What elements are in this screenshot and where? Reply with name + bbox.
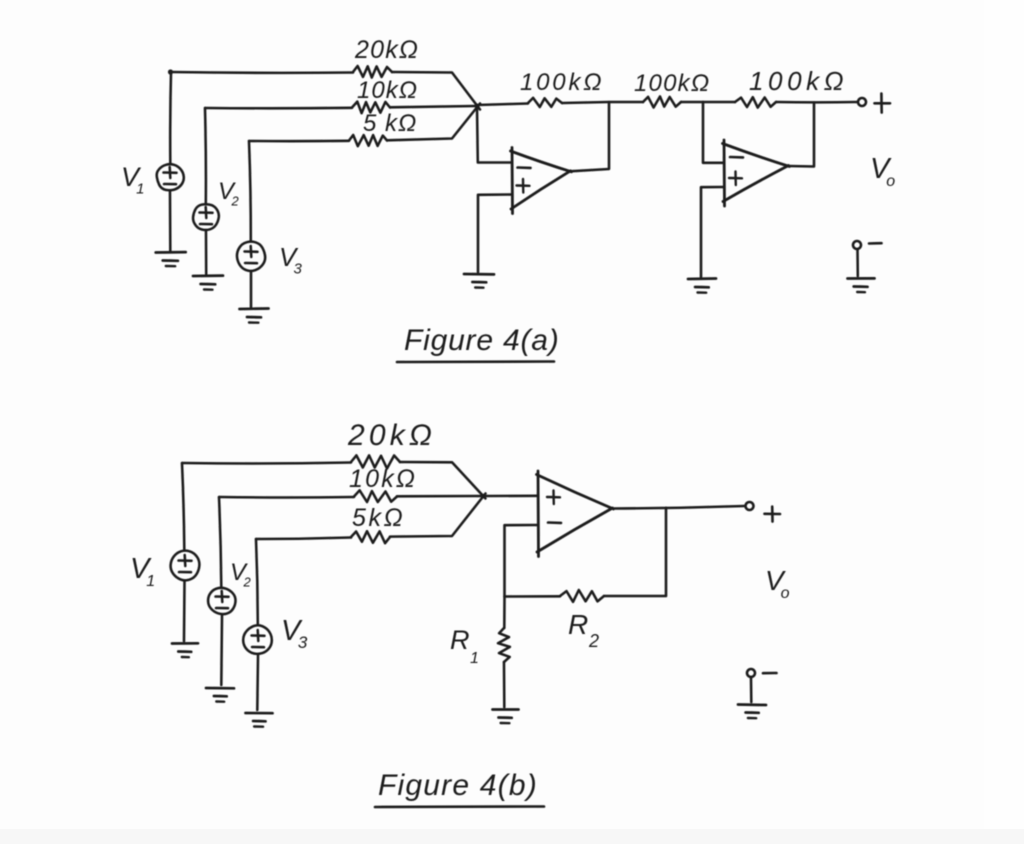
svg-text:R: R <box>568 609 589 640</box>
wire 10k input run <box>205 107 352 110</box>
node B drop to U2 inverting <box>703 102 724 163</box>
caption Figure 4(b) <box>375 769 544 807</box>
wire V2 vertical (Fig 4b) <box>219 497 221 587</box>
wire V3 vertical (Fig 4b) <box>256 539 258 624</box>
terminal + output (Fig 4b) <box>746 502 754 510</box>
label 20kOhm (Fig 4a) <box>354 36 419 64</box>
ground V3 (Fig 4b) <box>246 713 273 727</box>
label V1 (Fig 4a) <box>121 162 145 198</box>
label - at reference terminal <box>869 242 882 245</box>
svg-text:100kΩ: 100kΩ <box>749 66 848 96</box>
wire 5k to summing slant <box>387 104 480 141</box>
label Vo (Fig 4a) <box>870 153 896 190</box>
wire V3 to ground (Fig 4b) <box>256 655 259 710</box>
label V1 (Fig 4b) <box>130 553 156 590</box>
svg-text:10kΩ: 10kΩ <box>349 465 417 493</box>
ground U2 + input <box>688 279 716 293</box>
wire 20k to summing slant (Fig 4b) <box>400 462 486 499</box>
source V2 (Fig 4b) <box>208 588 235 614</box>
wire V3 to ground <box>250 271 253 307</box>
svg-text:1: 1 <box>136 181 145 198</box>
svg-text:Figure 4(a): Figure 4(a) <box>404 324 560 357</box>
resistor R1 (Fig 4b) <box>498 628 510 662</box>
source V3 (Fig 4a) <box>237 242 265 271</box>
ground reference terminal (Fig 4b) <box>738 705 766 719</box>
label 5kOhm (Fig 4a) <box>363 110 417 137</box>
resistor 100k feedback U1 <box>528 98 562 107</box>
svg-text:2: 2 <box>230 194 239 209</box>
svg-text:10kΩ: 10kΩ <box>357 77 418 104</box>
label 20kOhm (Fig 4b) <box>347 419 436 452</box>
wire R2 to output junction <box>604 508 666 596</box>
wire node B to Rf2 <box>703 101 735 104</box>
terminal - reference (Fig 4a) <box>853 241 861 249</box>
op-amp U3 (Fig 4b) <box>537 471 614 557</box>
wire Rf1 to output node <box>562 102 609 103</box>
source V1 (Fig 4b) <box>171 551 200 581</box>
wire reference to ground (Fig 4b) <box>750 677 753 702</box>
label 10kOhm (Fig 4b) <box>349 465 417 493</box>
resistor 10k (Fig 4b) <box>354 490 397 502</box>
resistor 5k (Fig 4b) <box>351 531 390 543</box>
wire V2 vertical <box>204 108 207 203</box>
svg-text:R: R <box>450 625 470 655</box>
label 100kOhm Rf2 <box>749 66 848 96</box>
svg-text:20kΩ: 20kΩ <box>347 419 436 452</box>
svg-text:3: 3 <box>298 633 308 652</box>
wire 10k input run (Fig 4b) <box>219 496 354 499</box>
op-amp U1 (Fig 4a) <box>511 148 572 214</box>
ground U1 + input <box>464 274 494 288</box>
label V3 (Fig 4a) <box>279 242 303 277</box>
label 5kOhm (Fig 4b) <box>352 504 405 532</box>
wire 5k input run <box>249 140 349 143</box>
wire noninverting input U2 <box>701 187 724 277</box>
ground V1 (Fig 4a) <box>156 252 186 266</box>
svg-text:5kΩ: 5kΩ <box>352 504 405 532</box>
label 100kOhm series <box>634 70 710 97</box>
resistor 20k (Fig 4b) <box>351 455 400 468</box>
wire feedback node to R2 <box>505 595 561 598</box>
wire inverting input U3 <box>505 525 539 596</box>
resistor R2 (Fig 4b) <box>560 590 604 602</box>
ground R1 (Fig 4b) <box>493 710 519 724</box>
ground V3 (Fig 4a) <box>240 309 269 323</box>
wire R1 to ground <box>503 662 506 707</box>
wire summing to Rf1 <box>477 104 528 106</box>
source V2 (Fig 4a) <box>193 204 219 230</box>
terminal - reference (Fig 4b) <box>747 669 755 677</box>
resistor 100k series (Fig 4a) <box>643 97 681 108</box>
label V2 (Fig 4b) <box>230 559 251 590</box>
ground V2 (Fig 4a) <box>193 276 223 290</box>
svg-text:Figure 4(b): Figure 4(b) <box>378 769 538 802</box>
label 10kOhm (Fig 4a) <box>357 77 418 104</box>
wire feedback node to R1 <box>503 597 506 629</box>
wire 20k input top run <box>170 71 353 74</box>
wire inverting input drop U1 <box>477 106 512 163</box>
wire V3 vertical <box>249 141 251 241</box>
label R2 (Fig 4b) <box>568 609 600 651</box>
svg-text:2: 2 <box>242 575 251 590</box>
wire V1 vertical (Fig 4b) <box>182 463 184 549</box>
source V1 (Fig 4a) <box>157 164 184 190</box>
summing node (Fig 4a) <box>475 104 480 109</box>
svg-text:100kΩ: 100kΩ <box>634 70 710 97</box>
wire reference to ground <box>856 249 859 276</box>
label 100kOhm Rf1 <box>520 69 604 96</box>
wire V1 to ground <box>169 191 172 251</box>
label Vo (Fig 4b) <box>765 565 790 602</box>
source V3 (Fig 4b) <box>243 625 272 654</box>
label R1 (Fig 4b) <box>450 625 479 667</box>
resistor 20k (Fig 4a) <box>353 66 392 78</box>
wire V2 to ground (Fig 4b) <box>220 615 223 685</box>
wire 5k input run (Fig 4b) <box>256 538 351 540</box>
svg-text:1: 1 <box>470 650 479 667</box>
svg-text:1: 1 <box>146 573 155 590</box>
ground V2 (Fig 4b) <box>206 688 234 702</box>
svg-text:20kΩ: 20kΩ <box>354 36 419 64</box>
node A (V1 tap, Fig 4a) <box>168 69 173 74</box>
wire Rf2 to output terminal <box>776 101 857 104</box>
summing node (Fig 4b) <box>481 494 486 499</box>
svg-text:o: o <box>886 173 895 190</box>
wire U1 output up <box>570 103 609 172</box>
resistor 10k (Fig 4a) <box>352 102 390 114</box>
wire V1 vertical <box>169 72 172 163</box>
wire series R to node B <box>681 101 703 104</box>
svg-text:100kΩ: 100kΩ <box>520 69 604 96</box>
label + at output terminal <box>875 94 891 113</box>
wire 5k to summing slant (Fig 4b) <box>390 494 486 537</box>
svg-text:3: 3 <box>294 260 303 277</box>
wire 20k input top run (Fig 4b) <box>182 461 351 465</box>
svg-text:o: o <box>781 585 790 602</box>
wire node to + input U3 <box>483 495 538 498</box>
resistor 5k (Fig 4a) <box>349 135 387 146</box>
wire 20k to summing slant <box>392 72 480 110</box>
resistor 100k feedback U2 <box>735 97 776 107</box>
terminal + output (Fig 4a) <box>858 98 866 106</box>
wire U2 output up <box>788 103 814 167</box>
wire 10k to summing node (Fig 4b) <box>397 495 482 498</box>
label + at output terminal (Fig 4b) <box>765 507 781 522</box>
svg-text:2: 2 <box>588 631 600 651</box>
op-amp U2 (Fig 4a) <box>723 140 790 206</box>
label - at reference terminal (Fig 4b) <box>763 672 777 675</box>
wire U3 output <box>612 506 745 509</box>
wire V1 to ground (Fig 4b) <box>183 581 186 641</box>
wire V2 to ground <box>205 231 208 275</box>
wire 10k to summing node <box>390 106 476 107</box>
label V3 (Fig 4b) <box>281 615 308 652</box>
wire between stages <box>609 101 643 104</box>
ground reference terminal (Fig 4a) <box>848 278 875 292</box>
label V2 (Fig 4a) <box>218 178 239 209</box>
svg-text:5 kΩ: 5 kΩ <box>363 110 417 137</box>
wire noninverting input U1 <box>478 195 512 273</box>
ground V1 (Fig 4b) <box>172 643 198 657</box>
caption Figure 4(a) <box>397 324 560 362</box>
